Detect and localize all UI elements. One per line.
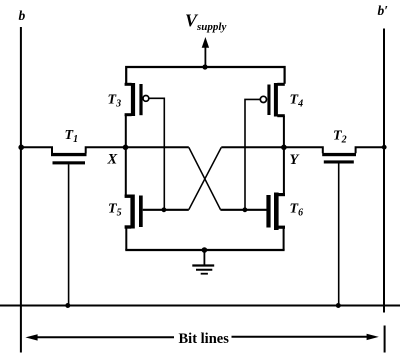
junction dot: node Y — [281, 145, 287, 151]
transistor T5 (NMOS) — [125, 195, 143, 251]
svg-text:T3: T3 — [108, 93, 122, 110]
ground symbol — [192, 250, 214, 274]
wire: ground rail — [125, 249, 284, 251]
T1 gate bar — [53, 161, 86, 164]
wire: T3 drain / node X / T5 drain vertical — [125, 115, 127, 197]
T5 source lead down — [125, 227, 127, 250]
T5 bottom source stub — [125, 225, 132, 228]
T4 bottom drain stub — [277, 114, 285, 117]
T5 gate bar — [139, 196, 143, 228]
T6 channel bar — [274, 193, 279, 231]
T6 top drain stub — [278, 193, 285, 196]
ground stem — [203, 250, 205, 265]
transistor T2 (access NMOS) — [283, 147, 385, 305]
transistor T3 (PMOS) — [125, 83, 149, 116]
T4 channel bar — [274, 83, 278, 117]
T6 gate bar — [266, 195, 270, 228]
wire: node X to cross-coupling — [125, 146, 189, 148]
wire: T3 gate to left gate bus — [149, 98, 164, 209]
T3 top source stub — [125, 83, 132, 86]
wire: right bit line b' upper segment — [383, 29, 385, 313]
T2 gate bar — [324, 160, 354, 163]
bit-lines dimension right arrowhead — [367, 334, 379, 340]
svg-text:b: b — [19, 8, 26, 23]
junction dot: T1 gate on word line — [65, 303, 70, 308]
T2 left lead from node Y — [283, 147, 323, 153]
junction dot: supply stem on rail — [202, 64, 207, 69]
wire: T4 gate to right gate bus — [245, 99, 260, 209]
T1 right lead to node X — [86, 147, 126, 153]
junction dot: T2 at bit line b' — [382, 145, 387, 150]
T2 right lead to bit line b' — [356, 147, 385, 153]
T4 top source stub — [277, 83, 285, 86]
T5 top drain stub — [125, 194, 132, 197]
svg-text:Y: Y — [290, 152, 300, 168]
diagonal: node Y to left gate bus — [189, 147, 222, 209]
ground bar 2 — [196, 269, 212, 271]
ground bar 3 — [201, 273, 208, 275]
T3 bottom drain stub — [125, 113, 132, 116]
T6 bottom source stub — [278, 226, 285, 229]
T6 source lead down — [283, 227, 285, 250]
V_supply arrow stem — [204, 47, 206, 68]
V_supply arrowhead — [202, 37, 209, 48]
svg-text:Bit lines: Bit lines — [179, 331, 230, 347]
junction dot: T2 gate on word line — [336, 303, 341, 308]
T4 gate bubble — [260, 96, 266, 102]
wire: word line — [0, 305, 400, 307]
wire: right gate bus (T6 gate) — [220, 209, 266, 211]
T3 channel bar — [131, 83, 135, 116]
wire: T4 drain / node Y / T6 drain vertical — [283, 116, 285, 195]
svg-text:X: X — [107, 151, 118, 167]
T3 gate bar — [139, 84, 142, 115]
svg-text:T2: T2 — [333, 129, 347, 146]
wire: left bit line b — [20, 27, 22, 353]
junction dot: word row at bit line b — [18, 145, 24, 151]
bit-lines dimension left arrow line — [37, 336, 175, 338]
junction dot: T3 gate drop on left bus — [162, 207, 167, 212]
junction dot: node X — [123, 145, 129, 151]
svg-text:T4: T4 — [290, 93, 304, 110]
svg-text:T1: T1 — [65, 128, 79, 145]
T3 gate bubble — [143, 96, 149, 102]
wire: V_supply rail — [126, 67, 284, 84]
T2 channel bar — [322, 153, 356, 156]
T1 gate lead to word line — [68, 164, 70, 305]
bit-lines dimension right arrow line — [232, 336, 368, 338]
transistor T4 (PMOS) — [260, 83, 285, 117]
T5 channel bar — [130, 195, 134, 229]
diagonal: node X to right gate bus — [189, 147, 221, 209]
wire: cross-coupling to node Y — [221, 146, 284, 148]
junction dot: ground stem on rail — [202, 247, 208, 253]
wire: right bit line b' lower segment — [384, 326, 386, 353]
wire: left gate bus (T5 gate) — [143, 209, 189, 211]
T1 channel bar — [51, 153, 87, 156]
transistor T6 (NMOS) — [266, 193, 285, 251]
T2 gate lead to word line — [338, 164, 340, 306]
T1 left lead from bit line — [21, 147, 52, 153]
junction dot: T4 gate drop on right bus — [243, 207, 248, 212]
T4 gate bar — [267, 85, 270, 116]
svg-text:b′: b′ — [378, 3, 389, 18]
bit-lines dimension left arrowhead — [25, 334, 37, 340]
svg-text:T5: T5 — [108, 202, 122, 219]
svg-text:Vsupply: Vsupply — [185, 11, 226, 34]
transistor T1 (access NMOS) — [21, 147, 126, 305]
svg-text:T6: T6 — [290, 202, 304, 219]
ground bar 1 — [192, 264, 214, 266]
